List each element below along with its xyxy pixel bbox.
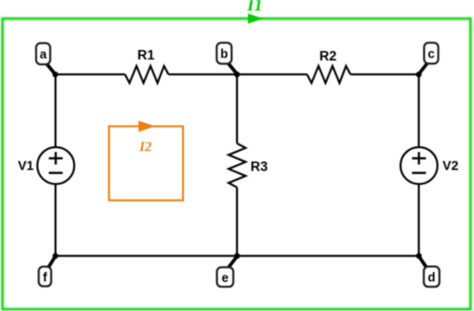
svg-text:c: c (428, 47, 435, 61)
current arrow I1 (248, 13, 263, 23)
svg-text:e: e (222, 271, 229, 285)
wire R3-e (middle lower) (236, 187, 238, 256)
svg-text:V2: V2 (443, 158, 459, 173)
wire b-R2 (237, 73, 307, 75)
current arrow I2 (139, 121, 156, 132)
junction dot b (234, 72, 240, 78)
mesh loop I2 (orange square) (109, 126, 183, 200)
junction dot e (234, 253, 240, 259)
resistor R2 (307, 66, 351, 83)
label R2 (319, 49, 336, 64)
svg-text:V1: V1 (18, 158, 34, 173)
label R3 (251, 159, 269, 174)
svg-text:I1: I1 (246, 0, 263, 14)
node b (217, 43, 237, 74)
wire V2-d (right lower) (418, 184, 420, 256)
node e (217, 256, 237, 286)
junction dot a (52, 72, 58, 78)
svg-text:b: b (220, 47, 228, 61)
junction dot f (53, 253, 59, 259)
label I1 (246, 0, 263, 14)
wire f-e (bottom left) (56, 255, 238, 257)
label V2 (443, 158, 459, 173)
wire c-V2 (right upper) (418, 74, 420, 147)
wire R1-b (169, 73, 238, 75)
wire a-R1 (top left) (55, 73, 125, 75)
voltage source V1 (37, 147, 74, 184)
svg-text:d: d (428, 271, 436, 285)
svg-text:R2: R2 (319, 49, 336, 64)
resistor R1 (125, 66, 169, 83)
svg-text:I2: I2 (138, 140, 151, 155)
svg-text:a: a (40, 48, 48, 62)
resistor R3 (229, 143, 246, 187)
label I2 (138, 140, 151, 155)
node c (419, 43, 439, 74)
wire b-R3 (middle upper) (236, 74, 238, 143)
node a (36, 43, 55, 74)
wire V1-f (left lower) (55, 184, 57, 256)
label R1 (137, 48, 155, 63)
wire a-V1 (left upper) (55, 74, 57, 147)
wire R2-c (351, 73, 419, 75)
wire e-d (bottom right) (237, 255, 419, 257)
label V1 (18, 158, 34, 173)
junction dot d (416, 253, 422, 259)
junction dot c (416, 72, 422, 78)
node f (39, 256, 56, 286)
svg-text:R3: R3 (251, 159, 269, 174)
voltage source V2 (401, 147, 438, 184)
svg-text:R1: R1 (137, 48, 155, 63)
node d (419, 256, 439, 286)
